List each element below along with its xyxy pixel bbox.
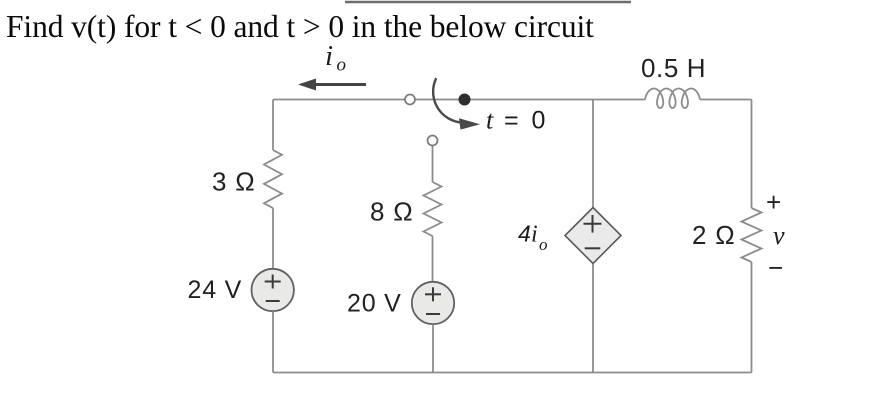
inductor L1 0.5H coil	[645, 89, 700, 109]
svg-text:i: i	[531, 222, 538, 248]
wire right vertical lower	[751, 262, 753, 373]
svg-text:t: t	[486, 106, 494, 135]
svg-text:0.5 H: 0.5 H	[641, 53, 706, 83]
svg-text:v: v	[773, 221, 785, 250]
wire branch2 upper below switch circle	[432, 146, 434, 182]
top border line	[345, 1, 631, 3]
current arrow io	[313, 83, 366, 86]
wire branch2 lower	[432, 324, 434, 372]
svg-text:o: o	[539, 235, 548, 254]
svg-text:24 V: 24 V	[188, 276, 243, 304]
wire branch3 vertical lower	[592, 264, 594, 373]
dependent source plus-minus	[584, 215, 602, 248]
wire left vertical middle	[272, 208, 274, 269]
dependent source diamond 4io	[565, 208, 621, 264]
wire branch2 middle	[432, 236, 434, 282]
svg-text:o: o	[337, 55, 347, 76]
svg-text:i: i	[325, 40, 333, 72]
source V1 24V circle	[252, 269, 294, 311]
switch motion arc	[433, 78, 461, 122]
svg-text:+: +	[766, 187, 781, 217]
source V2 20V circle	[412, 282, 454, 324]
svg-text:−: −	[768, 253, 783, 283]
resistor R 8ohm zigzag	[424, 182, 442, 236]
wire top from switch dot to inductor	[464, 99, 645, 101]
svg-text:3 Ω: 3 Ω	[212, 167, 256, 197]
svg-text:Find v(t) for t < 0 and t > 0: Find v(t) for t < 0 and t > 0 in the bel…	[6, 9, 594, 44]
source V1 plus-minus	[265, 275, 281, 302]
wire left vertical upper	[272, 100, 274, 151]
resistor R 2ohm zigzag	[742, 208, 762, 262]
switch arc arrowhead	[459, 118, 480, 129]
wire top-right after inductor	[700, 99, 752, 101]
svg-text:2 Ω: 2 Ω	[692, 220, 736, 250]
wire right vertical upper	[751, 100, 753, 209]
source V2 plus-minus	[425, 287, 441, 314]
switch lower terminal open circle	[428, 136, 438, 146]
svg-text:4: 4	[518, 221, 531, 247]
wire bottom horizontal	[273, 372, 752, 374]
svg-text:8 Ω: 8 Ω	[370, 197, 414, 227]
svg-text:20 V: 20 V	[347, 290, 402, 318]
wire left vertical lower	[272, 311, 274, 372]
wire branch3 vertical upper	[592, 100, 594, 209]
switch terminal open circle left	[405, 95, 415, 105]
switch closed contact dot	[459, 94, 471, 106]
svg-text:= 0: = 0	[504, 107, 548, 135]
wire top-left horizontal	[273, 99, 464, 101]
resistor R 3ohm zigzag	[264, 150, 282, 208]
